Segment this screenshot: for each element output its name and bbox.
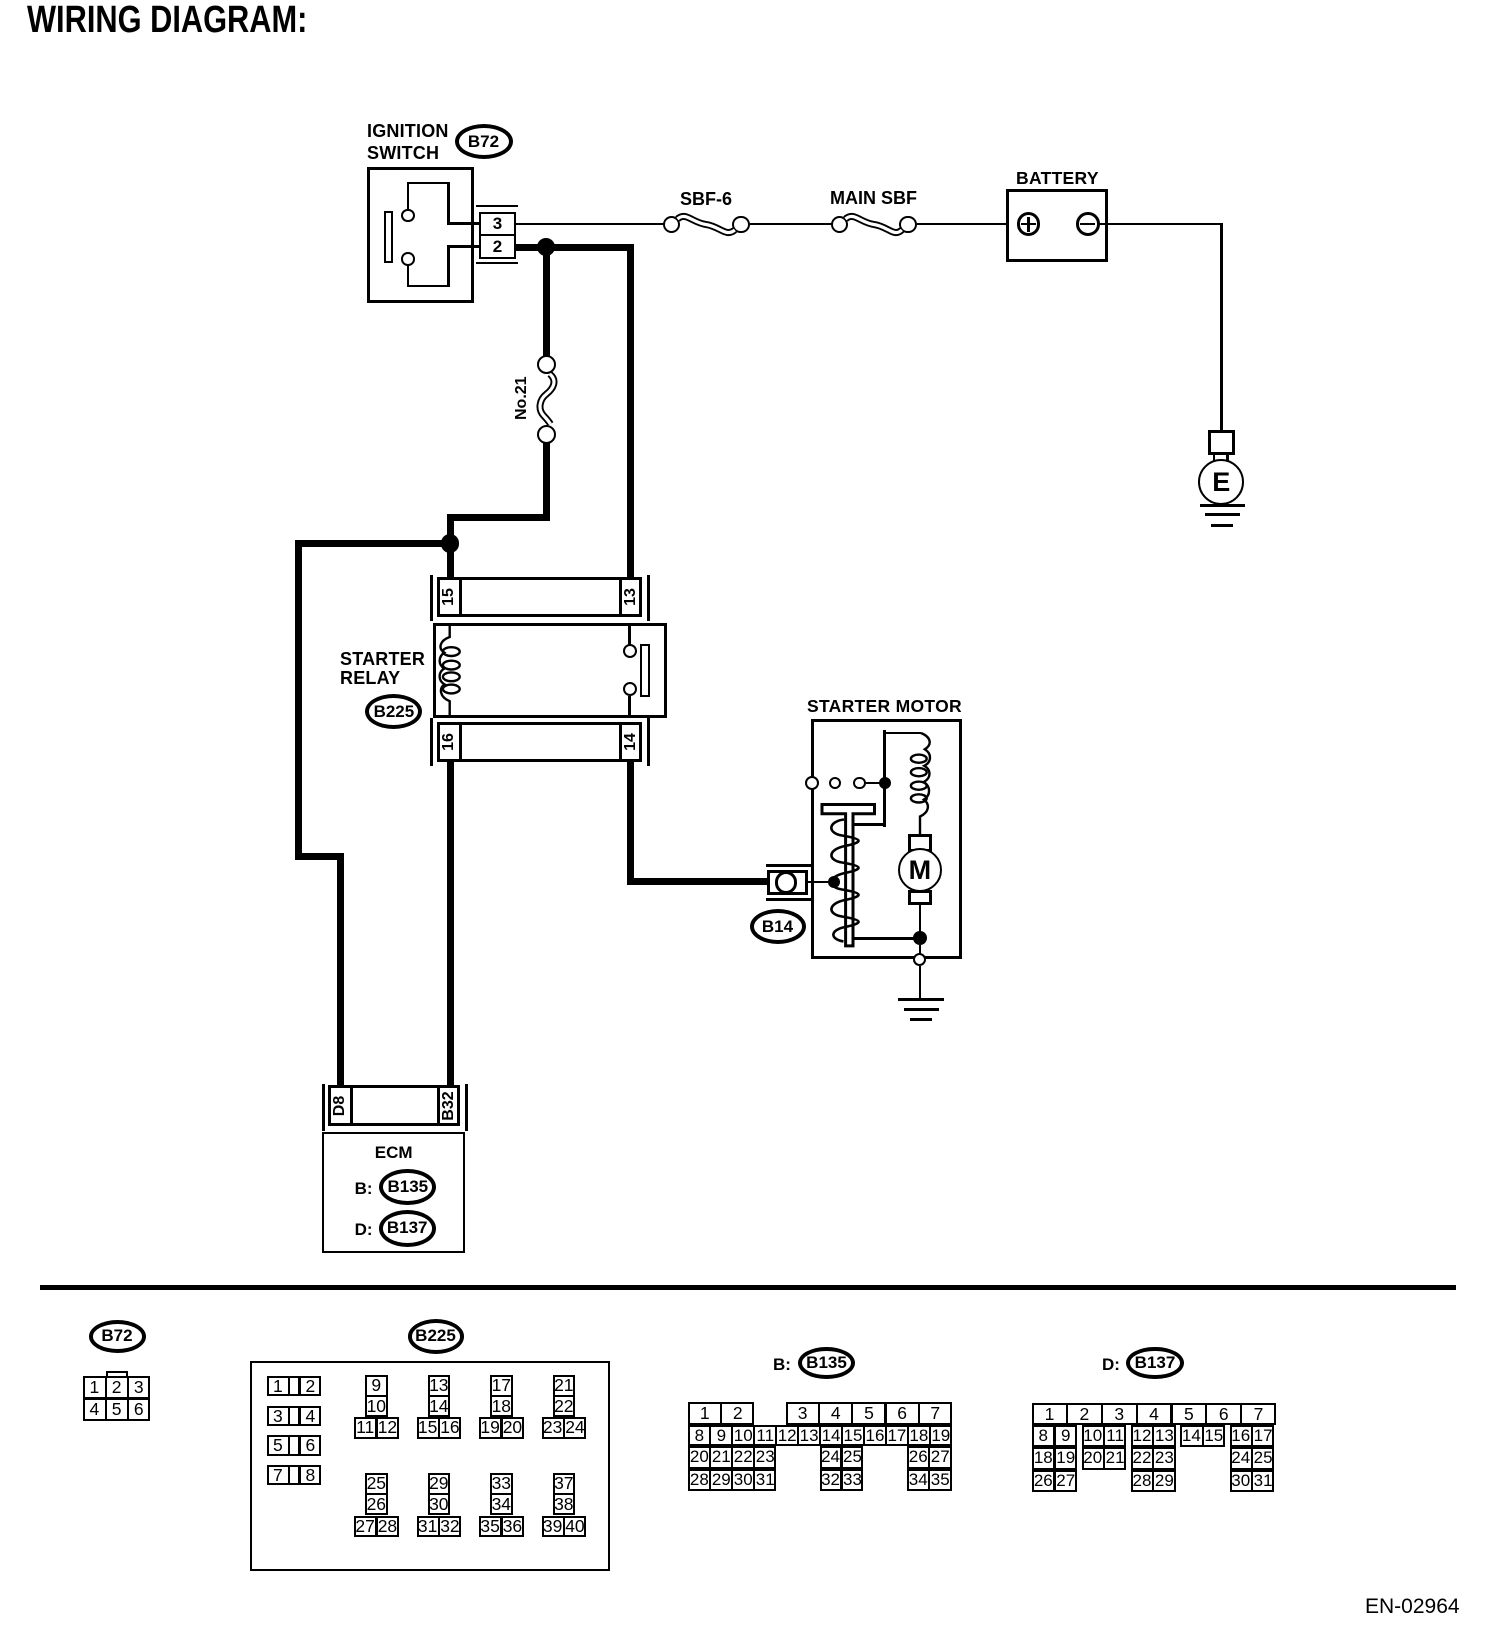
pin 15 bbox=[439, 577, 459, 617]
B225 cells 25-28 bbox=[365, 1473, 388, 1516]
B135 row1 cells 1-2 bbox=[688, 1402, 754, 1425]
B137 cells 14 15 bbox=[1180, 1425, 1225, 1447]
B135 row4 cells 34-35 bbox=[907, 1469, 952, 1491]
ground E terminal block bbox=[1208, 430, 1235, 456]
junction node motor bottom bbox=[913, 931, 927, 945]
B225 cells 17-20 bbox=[490, 1375, 513, 1418]
pin box pins 3 and 2 bbox=[479, 212, 516, 259]
B137 cells 24 25 bbox=[1230, 1447, 1275, 1469]
pin D8 bbox=[330, 1086, 350, 1126]
B137 cells 26 27 bbox=[1032, 1470, 1077, 1492]
pin 14 bbox=[621, 722, 641, 762]
B225 cells 5 6 bbox=[267, 1435, 322, 1456]
wire relay pin14 to connector B14 bbox=[627, 760, 634, 885]
fixed contact wire bbox=[883, 783, 886, 827]
divider line bbox=[40, 1285, 1456, 1290]
wire junction B left to ECM D8 bbox=[295, 540, 454, 547]
connector label B14 bbox=[750, 909, 806, 944]
magnetic switch terminal circles bbox=[805, 776, 819, 790]
connector pinout B72 grid bbox=[106, 1371, 129, 1379]
B225 cells 13-16 bbox=[428, 1375, 451, 1418]
connector label B72 bbox=[455, 124, 513, 159]
motor case terminal bbox=[913, 953, 926, 966]
B225 cells 29-32 bbox=[428, 1473, 451, 1516]
wire battery to ground E bbox=[1100, 223, 1223, 226]
wire junction down to fuse No.21 bbox=[543, 247, 550, 357]
B225 cells 7 8 bbox=[267, 1465, 322, 1486]
junction node A bbox=[537, 238, 556, 257]
wire lower contact to pin 2 bbox=[407, 265, 410, 286]
connector pinout B225 box bbox=[250, 1361, 610, 1571]
relay contact bar bbox=[640, 644, 650, 697]
B135 row2 cells 8-19 bbox=[688, 1425, 951, 1446]
motor M bbox=[908, 834, 932, 852]
B225 cells 9-12 bbox=[365, 1375, 388, 1418]
relay switch contacts bbox=[628, 624, 631, 645]
wire MAIN SBF to battery bbox=[917, 223, 1019, 226]
title WIRING DIAGRAM bbox=[27, 0, 307, 42]
connector pinout B135 label bbox=[773, 1355, 791, 1375]
ground E circle bbox=[1198, 459, 1244, 505]
wire pin2 to junction and pin13 bbox=[516, 244, 634, 251]
ECM connector B137 bbox=[355, 1220, 373, 1240]
relay top connector pins 15 13 bbox=[430, 575, 433, 622]
junction node B bbox=[441, 534, 460, 553]
wire upper contact to pin 3 bbox=[407, 183, 410, 210]
fuse No.21 bbox=[537, 355, 556, 374]
B137 cells 20 21 bbox=[1082, 1447, 1127, 1469]
wire SBF-6 to MAIN SBF bbox=[750, 223, 832, 226]
B137 cells 8 9 bbox=[1032, 1425, 1077, 1447]
B137 cells 22 23 bbox=[1131, 1447, 1176, 1469]
B135 row4 cells 28-31 bbox=[688, 1469, 776, 1491]
wire junction B down to relay pin 15 bbox=[447, 544, 454, 581]
ground symbol E bbox=[1200, 504, 1245, 507]
connector pinout B225 label bbox=[408, 1319, 464, 1354]
B137 cells 10 11 bbox=[1082, 1425, 1127, 1447]
starter relay label bbox=[340, 649, 425, 670]
fuse MAIN SBF bbox=[831, 216, 849, 234]
ECM label bbox=[322, 1143, 465, 1163]
relay bottom connector pins 16 14 bbox=[430, 718, 433, 766]
ECM connector B135 bbox=[355, 1179, 373, 1199]
B135 row4 cells 32-33 bbox=[820, 1469, 864, 1491]
plunger T bbox=[0, 0, 10, 10]
B135 row3 cells 20-23 bbox=[688, 1446, 776, 1468]
pin 13 bbox=[621, 577, 641, 617]
starter motor body bbox=[811, 719, 962, 959]
plunger spring bbox=[0, 0, 10, 10]
switch contact lower bbox=[401, 252, 415, 266]
ECM connector pins D8 B32 bbox=[322, 1084, 325, 1131]
relay coil bbox=[0, 0, 10, 10]
B225 cells 1 2 bbox=[267, 1376, 322, 1397]
B225 cells 3 4 bbox=[267, 1406, 322, 1427]
field coil bbox=[0, 0, 10, 10]
B137 cells 12 13 bbox=[1131, 1425, 1176, 1447]
B137 cells 30 31 bbox=[1230, 1470, 1275, 1492]
battery body bbox=[1006, 189, 1108, 262]
wire relay pin16 to ECM B32 bbox=[447, 760, 454, 1086]
junction node motor top bbox=[879, 777, 891, 789]
connector B14 bbox=[766, 864, 811, 867]
ignition switch U1 body bbox=[367, 167, 475, 304]
document number bbox=[1365, 1595, 1460, 1619]
junction node B14 bbox=[828, 876, 840, 888]
pin B32 bbox=[439, 1086, 459, 1126]
battery minus terminal bbox=[1076, 212, 1100, 236]
connector label B225 bbox=[365, 694, 422, 729]
B135 row1 cells 3-7 bbox=[786, 1402, 952, 1425]
B225 cells 21-24 bbox=[553, 1375, 576, 1418]
fuse SBF-6 bbox=[663, 216, 681, 234]
B137 cells 28 29 bbox=[1131, 1470, 1176, 1492]
connector rails bbox=[476, 205, 518, 208]
key bar bbox=[384, 211, 393, 263]
battery label bbox=[1016, 168, 1099, 189]
relay body B225 bbox=[433, 623, 667, 718]
B137 row1 cells 1-7 bbox=[1032, 1403, 1276, 1425]
B137 cells 18 19 bbox=[1032, 1447, 1077, 1469]
starter motor label bbox=[807, 696, 962, 717]
B135 row3 cells 26-27 bbox=[907, 1446, 952, 1468]
B135 row3 cells 24-25 bbox=[820, 1446, 864, 1468]
connector pinout B137 label bbox=[1102, 1355, 1120, 1375]
ground symbol motor bbox=[898, 998, 944, 1001]
wire motor to ground bbox=[919, 905, 922, 938]
wire fuse No.21 to junction B bbox=[543, 443, 550, 521]
pin 16 bbox=[439, 722, 459, 762]
ignition switch label bbox=[367, 121, 449, 142]
B225 cells 33-36 bbox=[490, 1473, 513, 1516]
B137 cells 16 17 bbox=[1230, 1425, 1275, 1447]
battery plus terminal bbox=[1017, 212, 1041, 236]
ECM body bbox=[322, 1132, 465, 1253]
wire pin 3 to SBF-6 bbox=[516, 223, 664, 226]
B225 cells 37-40 bbox=[553, 1473, 576, 1516]
wire to field coil bbox=[883, 730, 886, 783]
switch contact upper bbox=[401, 209, 415, 223]
connector pinout B72 label bbox=[89, 1320, 146, 1353]
